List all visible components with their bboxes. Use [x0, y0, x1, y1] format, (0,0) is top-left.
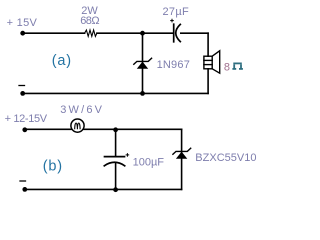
svg-text:BZXC55V10: BZXC55V10: [195, 152, 256, 164]
svg-text:3W/6V: 3W/6V: [60, 104, 104, 116]
svg-text:(a): (a): [52, 53, 72, 69]
svg-text:68Ω: 68Ω: [80, 15, 99, 27]
svg-text:1N967: 1N967: [157, 59, 190, 71]
svg-text:100µF: 100µF: [133, 157, 165, 169]
svg-text:27µF: 27µF: [163, 6, 190, 18]
svg-text:8: 8: [224, 61, 230, 73]
svg-text:+ 15V: + 15V: [7, 17, 38, 29]
svg-text:+ 12-15V: + 12-15V: [5, 113, 48, 125]
svg-text:(b): (b): [43, 159, 63, 175]
